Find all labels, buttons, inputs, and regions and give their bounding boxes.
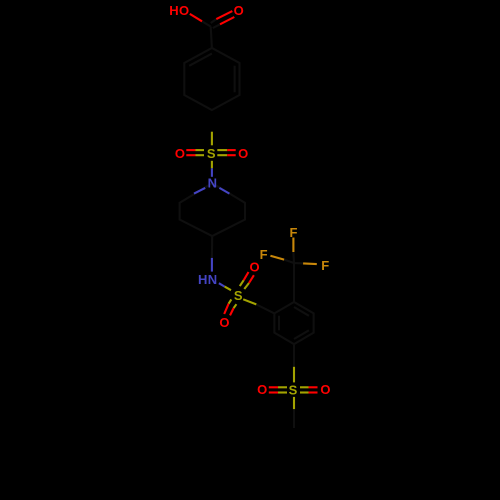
S2=O lower-left double bond line 1 bbox=[229, 299, 232, 303]
S2=O upper-right double bond line 1 bbox=[240, 280, 244, 286]
carboxylic acid: O-H to C bond (red half) bbox=[190, 14, 202, 21]
S3=O left double bond line 2 bbox=[269, 391, 278, 393]
svg-text:O: O bbox=[219, 315, 229, 330]
svg-text:F: F bbox=[260, 247, 268, 262]
svg-text:O: O bbox=[257, 382, 267, 397]
svg-text:S: S bbox=[289, 382, 298, 397]
svg-text:S: S bbox=[207, 146, 216, 161]
ring2 inner aromatic lines bbox=[279, 307, 309, 339]
S3=O right double bond line 2 bbox=[300, 391, 309, 393]
piperidine C4 to NH bond (blue half) bbox=[211, 258, 213, 272]
S3=O left double bond line 1 bbox=[269, 386, 278, 388]
svg-text:S: S bbox=[234, 288, 243, 303]
svg-text:F: F bbox=[290, 225, 298, 240]
NH to S2 bond (blue half then olive half) bbox=[219, 283, 225, 286]
S1-N bond (olive half then blue half) bbox=[211, 161, 213, 169]
piperidine ring (faint) bbox=[180, 183, 245, 236]
svg-text:O: O bbox=[234, 3, 244, 18]
acid C black halves of red bonds bbox=[202, 19, 220, 28]
S1=O right double bond line 2 bbox=[217, 154, 227, 156]
S1=O left double bond line 2 bbox=[186, 154, 195, 156]
sulfonyl S1: bond from benzene ring C to S (S half, olive) bbox=[211, 132, 213, 146]
S2 to benzene ring2 C1 bond (olive half) bbox=[243, 299, 256, 304]
svg-text:O: O bbox=[249, 259, 259, 274]
S2=O upper-right double bond line 2 bbox=[244, 283, 249, 289]
S3 to methyl C bond (S half, olive) bbox=[293, 397, 295, 409]
piperidine N to ring CH2 left (blue half) bbox=[194, 188, 205, 194]
ring2 C1 to S2 black half bbox=[256, 304, 274, 313]
benzene ring 1 (faint carbon skeleton) bbox=[184, 48, 239, 110]
S3 methyl carbon black half bbox=[293, 409, 295, 428]
carboxylic acid C=O double bond line 1 (red half) bbox=[216, 11, 232, 19]
benzene ring 2 (faint) bbox=[274, 302, 313, 344]
CF3 carbon bonds (black halves) bbox=[284, 252, 303, 302]
sulfonyl S3: ring C5 to S bond (S half, olive) bbox=[293, 367, 295, 383]
svg-text:O: O bbox=[175, 146, 185, 161]
svg-text:H: H bbox=[198, 272, 207, 287]
S2=O lower-left double bond line 2 bbox=[234, 304, 237, 308]
S1=O right double bond line 1 bbox=[217, 149, 227, 151]
svg-text:F: F bbox=[321, 258, 329, 273]
acid C to ring1 bond bbox=[211, 27, 212, 49]
piperidine C4 to NH black half bbox=[211, 236, 213, 258]
svg-text:O: O bbox=[179, 3, 189, 18]
CF3: C to F top bond (F half, gold) bbox=[292, 238, 294, 253]
ring2 C5 to S3 black half bbox=[293, 344, 295, 367]
svg-text:N: N bbox=[208, 272, 217, 287]
svg-text:O: O bbox=[320, 382, 330, 397]
ring1 inner aromatic lines bbox=[189, 54, 234, 93]
CF3: C to F left bond (F half, gold) bbox=[270, 256, 284, 260]
carboxylic acid C=O double bond line 2 (red half) bbox=[220, 17, 234, 24]
piperidine N to ring CH2 right (blue half) bbox=[219, 188, 229, 194]
svg-text:O: O bbox=[238, 146, 248, 161]
S1=O left double bond line 1 bbox=[186, 149, 195, 151]
S3=O right double bond line 1 bbox=[300, 386, 309, 388]
svg-text:N: N bbox=[208, 176, 217, 191]
svg-text:H: H bbox=[169, 3, 178, 18]
CF3: C to F right bond (F half, gold) bbox=[303, 262, 317, 265]
